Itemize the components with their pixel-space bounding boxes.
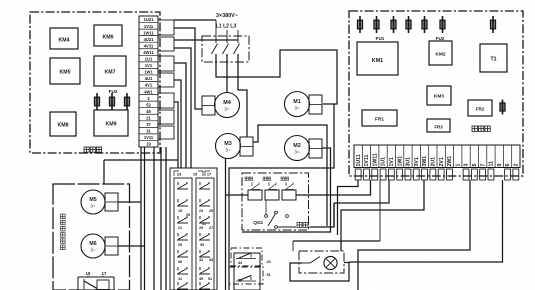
aux contact box upper (231, 248, 262, 266)
wire XT2-3 down-left (334, 180, 389, 203)
contactor KM1 (357, 42, 398, 75)
wire M1 drop to bottom run (229, 104, 334, 290)
motor M2 (285, 136, 310, 161)
wire XT2-7 drop (379, 180, 381, 241)
contactor KM5 (50, 58, 80, 84)
wire strip to L3 (174, 39, 238, 41)
wire L2 feeds M4 (226, 54, 228, 93)
controller contact L6 (177, 267, 188, 274)
controller contact R2 (199, 199, 210, 206)
fuse FU2-1 (406, 16, 411, 33)
pump caption (water pump) (297, 223, 302, 228)
wire strip down to controller c (174, 80, 181, 168)
fuse FU1-2 (374, 16, 379, 33)
motor M5 terminal box (105, 193, 118, 211)
wire M3 bottom drop (225, 159, 227, 290)
wire QS2 block a feed (226, 194, 249, 196)
wire lamp loop (290, 263, 349, 282)
fuse FU5 (500, 100, 505, 115)
aux contact lower blade (239, 276, 251, 281)
terminal strip link blocks (158, 20, 174, 35)
fuse FU3-2 (110, 93, 115, 110)
QS2 selector contacts (265, 215, 268, 218)
wire strip bottom to trolley M6 (144, 147, 146, 290)
motor M3 terminal box (240, 137, 253, 156)
main switch QS1 enclosure (202, 36, 249, 62)
wire strip bottom long run b (160, 147, 162, 290)
wire strip to L1 (174, 19, 216, 21)
controller contact R5 (199, 250, 210, 257)
contactor KM4 (50, 28, 78, 49)
limit switch leads (87, 276, 89, 277)
controller contact R3 (199, 216, 210, 223)
switch pole L1 (215, 20, 217, 43)
loading trolley enclosure (53, 184, 130, 290)
controller contact L3 (177, 216, 188, 223)
controller right column (196, 178, 214, 290)
motor M2 terminal box (309, 139, 322, 158)
fuse FU3-3 (125, 93, 130, 110)
contactor KM9 (94, 110, 128, 136)
controller contact R4 (199, 233, 210, 240)
lamp switch contact (302, 262, 310, 264)
right strip link blocks (355, 169, 361, 180)
QS2 terminal block c (282, 190, 296, 200)
controller contact L4 (177, 233, 188, 240)
limit switch contact (83, 279, 85, 289)
wire M2 drop (242, 148, 331, 232)
motor M4 terminal box (202, 96, 215, 115)
controller left column (174, 178, 192, 290)
transformer T1 (480, 44, 507, 72)
scan noise overlay (0, 0, 1, 1)
motor M1 terminal box (309, 95, 322, 114)
wire XT2-2 to QS2 block c (296, 180, 371, 195)
thermal relay FR2 (468, 100, 492, 116)
wire pump riser (333, 203, 335, 227)
aux inner frame (234, 253, 260, 290)
controller contact L7 (177, 282, 188, 289)
controller contact L2 (177, 199, 188, 206)
motor M4 (215, 93, 240, 118)
wire M3 to M2 crossover (253, 125, 327, 226)
wire XT2-1 down to pump area (338, 180, 359, 235)
left terminal strip XT1 (139, 16, 158, 147)
motor M1 (285, 92, 310, 117)
contactor KM2 (429, 41, 452, 65)
QS2 terminal block b (265, 190, 279, 200)
QS2 selector arm (268, 214, 275, 226)
thermal relay FR3 (427, 119, 450, 132)
fuse FU1-3 (391, 16, 396, 33)
motor M6 terminal box (105, 237, 118, 255)
limit switch SQ box (78, 277, 114, 290)
wire strip down to controller d (174, 102, 178, 168)
QS2 contact b (268, 183, 277, 190)
wire M6 to riser (118, 245, 145, 247)
controller contact L5 (177, 250, 188, 257)
QS2 contact a (251, 183, 260, 190)
contactor KM6 (94, 25, 122, 46)
controller contact R1 (199, 182, 210, 189)
thermal relay FR1 (362, 110, 397, 126)
wire M5 to riser (118, 201, 141, 203)
master controller outer box (170, 168, 217, 290)
wire lamp feed (293, 240, 380, 242)
wire strip bottom to trolley M5 (140, 147, 142, 290)
aux contact box lower (229, 267, 263, 284)
indicator lamp EL (324, 256, 337, 269)
right terminal strip XT2 (354, 145, 520, 168)
switch pole L2 (226, 30, 228, 43)
motor M3 (216, 134, 241, 159)
motor M5 (81, 190, 105, 214)
right distribution panel enclosure (349, 11, 523, 176)
controller contact R6 (199, 267, 210, 274)
controller contact R7 (199, 282, 210, 289)
fuse FU2-2 (422, 16, 427, 33)
fuse FU3-1 (95, 93, 100, 110)
wire L3 to M3 (238, 54, 247, 137)
wire strip to M4 feeder (174, 28, 202, 109)
motor M6 (81, 234, 105, 258)
fuse FU2-3 (440, 16, 445, 33)
pump switch QS2 enclosure (242, 173, 309, 230)
wire drop to trolley box (103, 160, 105, 184)
controller contact L1 (177, 182, 188, 189)
switch pole L3 (237, 30, 239, 43)
wire pump to riser (310, 203, 335, 227)
left panel label (distribution board) (84, 147, 89, 152)
wire horizontal run y160 (104, 159, 178, 161)
contactor KM3 (427, 86, 451, 105)
fuse FU4 (491, 16, 496, 33)
contactor KM8 (50, 112, 76, 136)
wire XT2-6 to lamp (349, 180, 503, 262)
left distribution panel enclosure (30, 12, 160, 153)
right panel label (distribution board) (472, 126, 477, 131)
wire strip bottom long run c (165, 147, 167, 290)
wire strip bottom long run a (153, 147, 155, 290)
wire XT2-4 to lamp area (341, 180, 424, 251)
QS2 contact c (285, 183, 294, 190)
trolley caption (on loading trolley), vertical (61, 214, 66, 219)
wire strip down to controller a (174, 48, 191, 168)
wire XT2-5 long run (358, 180, 470, 290)
wire QS2 to pump (277, 226, 296, 228)
fuse FU1-1 (358, 16, 363, 33)
QS2 position captions (245, 177, 248, 180)
QS2 selector stem (265, 200, 267, 215)
contactor KM7 (94, 56, 126, 86)
aux contact upper blade (239, 253, 251, 258)
wire L1 to M1 loop (216, 50, 337, 104)
QS2 terminal block a (248, 190, 262, 200)
lamp circuit enclosure (299, 251, 344, 273)
wire strip down to controller b (174, 63, 186, 168)
